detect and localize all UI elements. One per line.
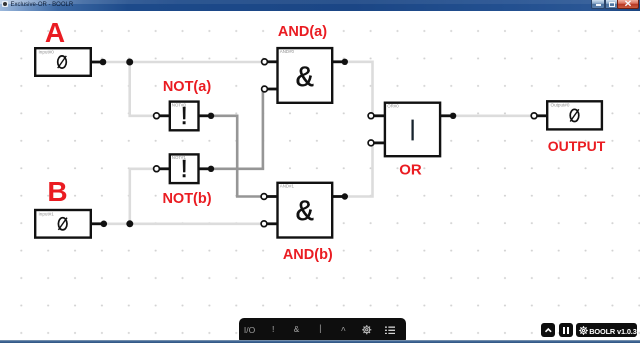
svg-text:AND#1: AND#1 [280, 184, 295, 189]
NOT gate NOT#0 [154, 102, 215, 132]
svg-text:!: ! [176, 102, 192, 132]
wire OR output to OUTPUT [453, 115, 534, 118]
wire branch A to NOT(a) input [130, 62, 157, 116]
wire branch B to NOT(b) input [130, 169, 157, 224]
title bar [0, 0, 640, 11]
svg-text:&: & [296, 196, 314, 230]
label NOT(a) [163, 79, 211, 95]
label AND(a) [278, 24, 327, 40]
OR gate OR#0 [368, 103, 456, 157]
window title [11, 2, 74, 8]
AND gate AND#0 [262, 48, 348, 103]
app icon [2, 1, 8, 7]
label NOT(b) [162, 191, 211, 207]
wire AND(b) output to OR input 2 [345, 143, 373, 197]
zoom-in button [541, 323, 556, 338]
svg-text:OR#0: OR#0 [387, 104, 399, 109]
maximize button [605, 0, 618, 9]
wire input B to AND(b) input 2 [104, 223, 264, 226]
wire input A to AND(a) input 1 [103, 61, 265, 64]
output box Output#0 [531, 101, 602, 129]
toolbar item ! [270, 325, 275, 335]
AND gate AND#1 [261, 183, 348, 238]
wire AND(a) output to OR input 1 [345, 62, 373, 116]
svg-text:Input#1: Input#1 [39, 211, 55, 216]
svg-text:Output#0: Output#0 [551, 103, 570, 108]
close button [617, 0, 639, 9]
input B (Input#1) [35, 210, 107, 238]
toolbar item ^ [341, 326, 346, 336]
pause button [559, 323, 573, 338]
junction node A [126, 59, 133, 66]
taskbar strip [0, 340, 640, 343]
minimize button [591, 0, 605, 9]
svg-text:!: ! [176, 155, 192, 185]
toolbar item | [318, 324, 323, 334]
svg-text:Input#0: Input#0 [39, 50, 55, 55]
input A (Input#0) [35, 48, 106, 76]
label OUTPUT [548, 138, 606, 154]
label OR [399, 162, 422, 179]
toolbar list icon [385, 326, 396, 335]
toolbar item I/O [244, 325, 255, 335]
junction node B [126, 220, 133, 227]
toolbar item & [294, 325, 299, 335]
svg-text:&: & [296, 62, 314, 96]
BOOLR version button [576, 323, 637, 338]
label AND(b) [283, 247, 333, 263]
svg-text:AND#0: AND#0 [280, 49, 295, 54]
toolbar gear icon [362, 325, 372, 335]
wire NOT(b) output to AND(a) input 2 [211, 89, 265, 169]
NOT gate NOT#1 [154, 154, 215, 185]
bottom toolbar [239, 318, 406, 343]
label A [45, 17, 65, 49]
label B [47, 176, 67, 208]
wire NOT(a) output to AND(b) input 1 [211, 116, 264, 197]
